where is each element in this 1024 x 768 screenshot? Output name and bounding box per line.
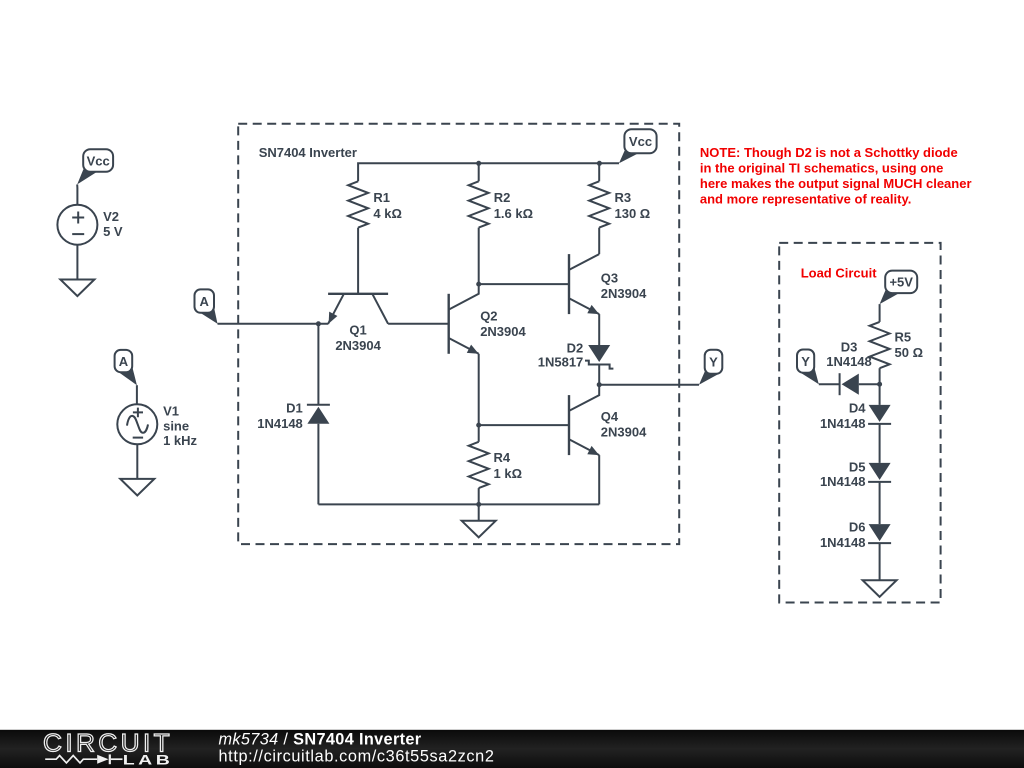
- svg-text:Q1: Q1: [349, 323, 366, 338]
- svg-text:1N4148: 1N4148: [826, 354, 872, 369]
- svg-text:1N5817: 1N5817: [538, 355, 584, 370]
- wire D4 to D5: [879, 424, 881, 463]
- wire A flag to V1: [136, 385, 138, 404]
- node junction R4 bottom: [476, 502, 481, 507]
- node junction load: [877, 382, 882, 387]
- svg-text:Load Circuit: Load Circuit: [801, 265, 878, 280]
- load circuit dashed box: [779, 243, 940, 603]
- svg-text:1.6 kΩ: 1.6 kΩ: [494, 206, 533, 221]
- wire Q3 emitter to D2: [598, 314, 600, 345]
- ground load: [863, 580, 897, 597]
- flag Y load: [797, 350, 819, 385]
- svg-text:+5V: +5V: [889, 275, 913, 290]
- svg-text:Vcc: Vcc: [87, 154, 110, 169]
- svg-text:D3: D3: [841, 340, 858, 355]
- svg-text:NOTE: Though D2 is not a Schot: NOTE: Though D2 is not a Schottky diode: [700, 145, 958, 160]
- resistor R3: [589, 181, 650, 227]
- svg-text:D6: D6: [849, 520, 866, 535]
- footer title text: [219, 730, 495, 765]
- svg-text:sine: sine: [163, 418, 189, 433]
- svg-text:D4: D4: [849, 401, 866, 416]
- wire D2 to output node: [598, 365, 600, 385]
- node junction R3 top: [597, 161, 602, 166]
- svg-text:SN7404 Inverter: SN7404 Inverter: [259, 145, 357, 160]
- svg-text:R4: R4: [494, 450, 511, 465]
- transistor Q2 2N3904: [449, 284, 527, 354]
- wire Q4 base row: [479, 424, 569, 426]
- svg-text:Q2: Q2: [480, 309, 497, 324]
- svg-text:1N4148: 1N4148: [820, 474, 866, 489]
- transistor Q3 2N3904: [569, 254, 647, 314]
- svg-text:A: A: [119, 354, 129, 369]
- wire D1 bottom lead: [317, 424, 319, 505]
- wire R2 bottom lead: [478, 228, 480, 285]
- ground main circuit: [462, 504, 496, 537]
- svg-text:Q4: Q4: [601, 409, 619, 424]
- wire R2 top lead: [478, 163, 480, 181]
- svg-text:V1: V1: [163, 403, 179, 418]
- wire input row A to Q1 emitter: [218, 323, 329, 325]
- diode D1 1N4148: [257, 401, 330, 431]
- svg-text:here makes the output signal M: here makes the output signal MUCH cleane…: [700, 176, 972, 191]
- svg-text:Vcc: Vcc: [629, 134, 652, 149]
- wire V1 to ground: [136, 444, 138, 479]
- diode D3 1N4148: [826, 340, 872, 396]
- svg-text:R5: R5: [895, 329, 912, 344]
- diode D5 1N4148: [820, 460, 891, 490]
- svg-text:130 Ω: 130 Ω: [615, 206, 651, 221]
- resistor R5: [870, 322, 923, 368]
- flag Y output: [699, 350, 722, 385]
- wire Vcc top rail: [358, 163, 619, 181]
- wire R4 bottom lead: [478, 488, 480, 504]
- wire D5 to D6: [879, 482, 881, 524]
- svg-text:1N4148: 1N4148: [820, 416, 866, 431]
- wire R4 top lead: [478, 425, 480, 442]
- svg-text:D5: D5: [849, 460, 866, 475]
- footer bar: [0, 730, 1024, 768]
- logo CIRCUIT LAB: [43, 729, 173, 767]
- svg-text:1N4148: 1N4148: [257, 416, 303, 431]
- wire Q2 collector to Q3 base: [479, 283, 569, 285]
- wire Q2 emitter down: [478, 354, 480, 425]
- svg-text:R3: R3: [615, 190, 632, 205]
- wire Q1 collector to Q2 base: [388, 323, 449, 325]
- svg-text:D2: D2: [567, 341, 584, 356]
- svg-text:1N4148: 1N4148: [820, 535, 866, 550]
- wire R3 bottom lead: [598, 228, 600, 255]
- node junction R2 top: [476, 161, 481, 166]
- svg-text:and more representative of rea: and more representative of reality.: [700, 191, 911, 206]
- svg-text:Q3: Q3: [601, 271, 618, 286]
- flag A at V1: [115, 350, 137, 385]
- wire D1 top lead: [317, 324, 319, 405]
- transistor Q1 2N3904: [328, 294, 388, 353]
- svg-text:2N3904: 2N3904: [335, 338, 381, 353]
- node junction Q2 collector / R2: [476, 282, 481, 287]
- wire Q4 emitter down: [598, 455, 600, 504]
- flag +5V: [880, 271, 918, 305]
- wire D3 to node: [859, 383, 880, 385]
- svg-text:in the original TI schematics,: in the original TI schematics, using one: [700, 161, 943, 176]
- wire +5V to R5: [879, 304, 881, 322]
- svg-text:R1: R1: [373, 190, 390, 205]
- svg-text:1 kHz: 1 kHz: [163, 433, 197, 448]
- label SN7404 Inverter: [259, 145, 357, 160]
- node junction D1 top: [316, 321, 321, 326]
- transistor Q4 2N3904: [569, 385, 647, 455]
- svg-text:mk5734 / SN7404 Inverter: mk5734 / SN7404 Inverter: [219, 730, 422, 748]
- svg-text:V2: V2: [103, 209, 119, 224]
- resistor R2: [469, 181, 533, 227]
- wire R5 bottom lead: [879, 368, 881, 384]
- flag Vcc inside box: [619, 129, 657, 163]
- wire V2 to ground: [76, 245, 78, 280]
- label Load Circuit: [801, 265, 878, 280]
- diode D6 1N4148: [820, 520, 891, 551]
- svg-text:http://circuitlab.com/c36t55sa: http://circuitlab.com/c36t55sa2zcn2: [219, 748, 495, 766]
- wire node to D4: [879, 384, 881, 405]
- wire D6 to ground: [879, 543, 881, 580]
- svg-text:2N3904: 2N3904: [480, 324, 526, 339]
- svg-text:1 kΩ: 1 kΩ: [494, 466, 523, 481]
- wire output row to Y flag: [599, 384, 699, 386]
- node junction R4 top: [476, 423, 481, 428]
- wire R1 bottom lead: [357, 228, 359, 294]
- ground V1: [120, 479, 154, 496]
- svg-text:R2: R2: [494, 190, 511, 205]
- svg-text:2N3904: 2N3904: [601, 286, 647, 301]
- svg-text:50 Ω: 50 Ω: [895, 345, 924, 360]
- flag A input: [195, 289, 218, 323]
- wire R3 top lead: [598, 163, 600, 181]
- svg-text:A: A: [200, 294, 210, 309]
- diode D4 1N4148: [820, 401, 891, 432]
- svg-text:LAB: LAB: [123, 751, 174, 767]
- diode D2 1N5817 schottky: [538, 341, 614, 370]
- voltage source V2 5V: [57, 205, 123, 245]
- flag Vcc at V2: [77, 149, 113, 184]
- svg-text:Y: Y: [801, 354, 810, 369]
- ground V2: [60, 280, 94, 297]
- svg-text:4 kΩ: 4 kΩ: [373, 206, 402, 221]
- svg-text:5 V: 5 V: [103, 224, 123, 239]
- node junction output Y: [597, 382, 602, 387]
- subcircuit dashed box SN7404 Inverter: [238, 124, 679, 544]
- note red text: [700, 145, 972, 207]
- voltage source V1 sine: [117, 403, 197, 448]
- svg-text:D1: D1: [286, 401, 303, 416]
- resistor R1: [348, 181, 402, 227]
- wire Y flag to D3: [819, 383, 840, 385]
- svg-text:Y: Y: [709, 355, 718, 370]
- resistor R4: [469, 442, 522, 488]
- wire bottom rail: [318, 503, 599, 505]
- svg-text:2N3904: 2N3904: [601, 425, 647, 440]
- wire Vcc flag to V2: [76, 184, 78, 204]
